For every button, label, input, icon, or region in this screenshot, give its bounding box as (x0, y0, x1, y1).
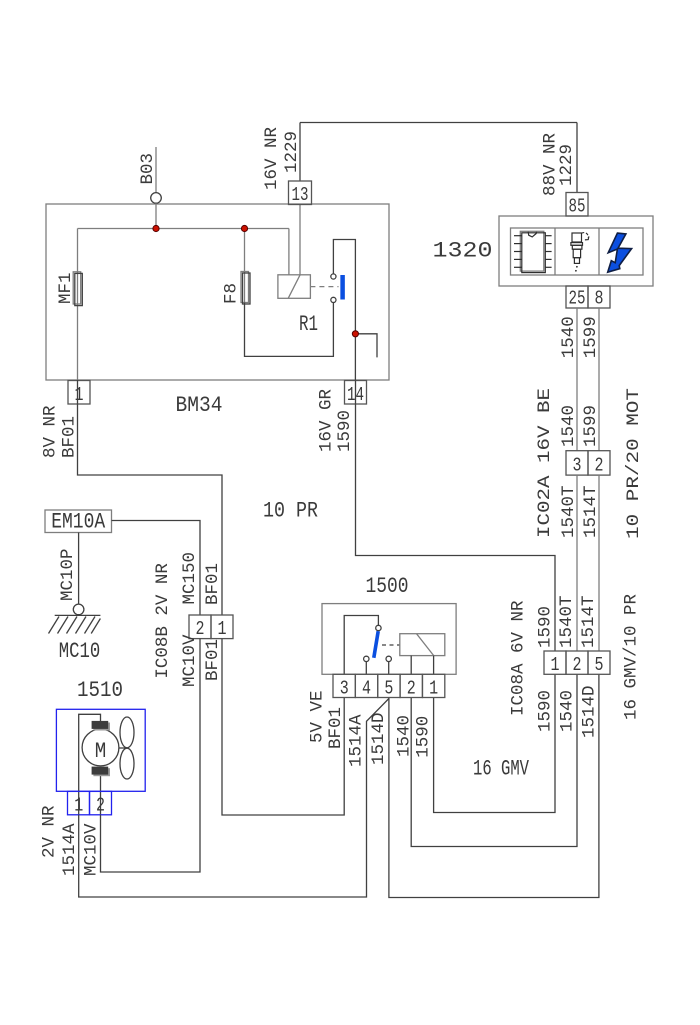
svg-text:5V VE: 5V VE (307, 690, 327, 743)
svg-text:1: 1 (551, 654, 560, 676)
svg-text:1540T: 1540T (557, 595, 577, 648)
svg-text:10 PR: 10 PR (263, 499, 318, 524)
svg-text:1514D: 1514D (580, 685, 600, 738)
svg-text:1590: 1590 (536, 606, 556, 648)
svg-text:16 GMV: 16 GMV (473, 757, 530, 782)
svg-text:1: 1 (429, 678, 438, 700)
svg-text:1599: 1599 (581, 405, 601, 447)
svg-text:5: 5 (384, 678, 393, 700)
svg-text:4: 4 (362, 678, 371, 700)
svg-text:1514T: 1514T (579, 595, 599, 648)
svg-text:3: 3 (340, 678, 349, 700)
svg-text:BF01: BF01 (203, 563, 223, 605)
svg-text:8: 8 (595, 288, 604, 310)
svg-text:IC08B 2V NR: IC08B 2V NR (153, 563, 173, 679)
svg-text:MF1: MF1 (56, 272, 76, 304)
svg-text:F8: F8 (222, 283, 242, 304)
svg-text:EM10A: EM10A (51, 510, 106, 535)
svg-text:2: 2 (96, 795, 105, 817)
svg-text:25: 25 (569, 288, 586, 310)
svg-text:IC08A 6V NR: IC08A 6V NR (509, 600, 529, 716)
svg-text:1540: 1540 (559, 316, 579, 358)
svg-text:1514A: 1514A (346, 714, 366, 767)
svg-text:BF01: BF01 (60, 416, 80, 458)
svg-text:BF01: BF01 (326, 707, 346, 749)
svg-text:2: 2 (407, 678, 416, 700)
svg-text:3: 3 (573, 455, 582, 477)
svg-text:MC10V: MC10V (180, 634, 200, 687)
svg-text:10 PR/20 MOT: 10 PR/20 MOT (624, 388, 644, 539)
svg-text:1599: 1599 (581, 316, 601, 358)
svg-text:R1: R1 (299, 312, 318, 337)
svg-text:1540: 1540 (558, 690, 578, 732)
svg-text:BF01: BF01 (203, 639, 223, 681)
svg-text:85: 85 (569, 196, 586, 218)
svg-text:1: 1 (218, 618, 227, 640)
svg-text:MC150: MC150 (180, 552, 200, 605)
svg-text:1: 1 (74, 795, 83, 817)
svg-text:13: 13 (292, 184, 309, 206)
svg-text:M: M (95, 739, 107, 764)
svg-text:1500: 1500 (366, 574, 409, 599)
svg-text:MC10P: MC10P (58, 548, 78, 601)
svg-text:16V GR: 16V GR (317, 388, 337, 452)
svg-text:1540: 1540 (559, 405, 579, 447)
svg-text:1514D: 1514D (369, 712, 389, 765)
svg-text:1510: 1510 (77, 678, 123, 703)
svg-text:2V NR: 2V NR (40, 805, 60, 858)
svg-text:2: 2 (573, 654, 582, 676)
svg-text:1514T: 1514T (581, 485, 601, 538)
svg-text:B03: B03 (138, 153, 158, 185)
svg-text:1229: 1229 (282, 131, 302, 173)
svg-text:16 GMV/10 PR: 16 GMV/10 PR (622, 593, 642, 720)
svg-text:1514A: 1514A (60, 823, 80, 876)
svg-text:5: 5 (595, 654, 604, 676)
svg-text:1590: 1590 (536, 690, 556, 732)
svg-text:8V NR: 8V NR (41, 405, 61, 458)
svg-text:1590: 1590 (335, 410, 355, 452)
svg-text:1540: 1540 (394, 715, 414, 757)
svg-text:1320: 1320 (433, 239, 493, 264)
svg-text:2: 2 (595, 455, 604, 477)
svg-text:1229: 1229 (557, 144, 577, 186)
svg-text:16V NR: 16V NR (262, 126, 282, 190)
svg-text:BM34: BM34 (176, 393, 223, 418)
svg-text:IC02A 16V BE: IC02A 16V BE (535, 388, 555, 538)
svg-text:1: 1 (75, 384, 84, 406)
svg-text:MC10: MC10 (59, 639, 101, 664)
svg-text:1590: 1590 (414, 716, 434, 758)
svg-text:MC10V: MC10V (82, 823, 102, 876)
svg-text:1540T: 1540T (559, 485, 579, 538)
